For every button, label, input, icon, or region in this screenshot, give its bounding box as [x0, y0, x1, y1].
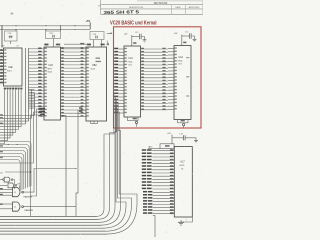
svg-text:RAMR/W: RAMR/W: [25, 209, 33, 212]
svg-text:U1E: U1E: [8, 66, 13, 69]
U15 bottom wires and ground: [154, 215, 156, 237]
wire +5V top bus upper: [0, 25, 90, 27]
bus ladder rungs below U1E: [29, 89, 35, 91]
svg-text:UB2: UB2: [92, 64, 97, 67]
svg-text:U1: U1: [14, 192, 16, 194]
left edge net labels: [0, 114, 3, 115]
revision entry handwritten: [103, 9, 139, 15]
svg-text:C13: C13: [135, 32, 138, 34]
UB2 bottom left pins: [79, 109, 87, 111]
wires box C20 to UB2 top pins: [93, 40, 95, 48]
inverter gate A: [0, 179, 3, 181]
U1E bottom pin wires descending to left-exit staircase: [0, 90, 5, 144]
U15 left pins group 1 address: [152, 150, 174, 152]
svg-text:C12: C12: [185, 31, 188, 33]
svg-text:U10: U10: [49, 64, 54, 67]
U1E left pin stubs and labels: [0, 50, 4, 52]
capacitor network box C2R: [46, 31, 61, 39]
U12 internal pin number marks: [186, 57, 189, 58]
U1E bottom pin number row: [4, 88, 6, 90]
wire into R28 from left: [148, 148, 160, 150]
wire box2 to U10 pin 28: [53, 39, 55, 47]
wire bus drop left: [1, 26, 3, 48]
U12 bottom ground pins joined: [177, 120, 179, 123]
svg-text:U12: U12: [179, 56, 184, 59]
U10 bottom-left pin wires to gates zone: [39, 108, 45, 110]
U12 pin 24 mark: [183, 42, 186, 44]
U1D inputs: [0, 203, 13, 205]
NAND gate U1D lower: [13, 202, 21, 211]
NAND gate U1C: [13, 188, 21, 197]
svg-text:C1R: C1R: [8, 33, 12, 35]
svg-text:2364-: 2364-: [128, 62, 133, 64]
svg-text:+5V: +5V: [174, 33, 178, 35]
svg-text:+5V: +5V: [167, 133, 171, 135]
svg-text:C2R: C2R: [49, 33, 53, 35]
U1D output wire to x76 vertical: [24, 206, 77, 208]
svg-text:+5V: +5V: [86, 19, 91, 23]
NAND inputs: [0, 189, 13, 191]
scan noise speckles: [1, 0, 203, 239]
title block verticals: [100, 0, 102, 14]
capacitor C2 symbol: [52, 35, 54, 38]
svg-text:LA15: LA15: [148, 146, 152, 149]
resistor network box R28 above U15: [160, 144, 174, 149]
wire bus drops for C2R: [45, 29, 47, 31]
U10 left pins with labels joined to bus: [29, 48, 45, 50]
IC U15 body: [174, 147, 192, 218]
data bus horizontal lines bottom: [0, 215, 97, 217]
svg-text:28: 28: [17, 45, 19, 47]
svg-text:U1: U1: [14, 207, 16, 209]
vertical bus lines between U1E and U10: [25, 48, 27, 124]
signal arrow marks right of UB2: [107, 32, 111, 34]
IC UB2 character ROM body: [86, 47, 107, 121]
stray mark top left: [11, 13, 14, 15]
IC U11 BASIC ROM 2364 body: [124, 46, 141, 117]
U11 pin 24 mark: [133, 42, 136, 44]
wire gate A to NAND input: [13, 180, 15, 190]
ground for C18: [185, 138, 196, 140]
U11 right pins data bus to U12: [141, 48, 169, 50]
U10 right pins address bus to UB2: [61, 48, 87, 50]
title block REVISIONS table: [137, 0, 203, 2]
resistor-capacitor network box C1R: [5, 31, 18, 41]
IC U10 6502 body: [44, 47, 61, 120]
R28 value mark inside box: [165, 145, 170, 147]
IC U1E 74LS chip body: [4, 48, 23, 86]
svg-text:VC20 BASIC und Kernal: VC20 BASIC und Kernal: [110, 20, 157, 26]
inverter gate B: [0, 184, 7, 186]
svg-text:7: 7: [186, 220, 187, 222]
UB2 bottom pin stubs: [90, 121, 92, 124]
U11 left pins with net labels: [119, 48, 125, 50]
svg-text:C.18: C.18: [179, 134, 183, 136]
svg-text:2364-: 2364-: [178, 61, 183, 63]
wire +5V top bus lower: [0, 28, 90, 30]
ground for C13: [141, 37, 144, 40]
capacitor C12 symbol: [189, 33, 191, 38]
capacitor C1 symbol: [9, 36, 14, 38]
wire UB2 bottom pins down long vertical x78: [76, 110, 78, 216]
U11 bottom ground pins joined: [127, 117, 129, 121]
wire box1 to U1E: [10, 41, 12, 44]
wires from U10 top right to UB2 top: [64, 43, 87, 45]
svg-text:6562-: 6562-: [180, 165, 185, 167]
UB2 internal pin number marks: [96, 58, 101, 59]
U12 left pin stubs: [168, 48, 174, 50]
IC U12 KERNAL ROM 2364 body: [174, 46, 191, 120]
svg-text:MPS: MPS: [48, 69, 53, 71]
lower address bundle from page edge curving down to gates: [0, 142, 31, 187]
wire R28 to U15 box: [173, 145, 175, 147]
junction dots on bundle: [8, 144, 9, 145]
svg-text:U11: U11: [129, 57, 134, 60]
ground for C12: [191, 36, 194, 39]
data bus risers D0-D7 with curved corners: [96, 208, 104, 216]
bus verticals turn left to page edge: [0, 115, 35, 117]
node junction dots on bus: [2, 25, 3, 26]
red highlight box VC20 BASIC und Kernal: [114, 27, 202, 128]
capacitor C13 symbol: [139, 34, 141, 39]
wire long vertical x66 to bottom bus: [61, 115, 67, 117]
U15 left pins group 2 data: [153, 191, 175, 193]
svg-text:C20: C20: [93, 34, 96, 36]
capacitor C18 symbol: [183, 135, 185, 140]
svg-text:U17: U17: [181, 162, 186, 164]
capacitor network box C20: [90, 32, 104, 40]
NAND output wire RAMR/W right-up-right to x76: [24, 169, 77, 193]
